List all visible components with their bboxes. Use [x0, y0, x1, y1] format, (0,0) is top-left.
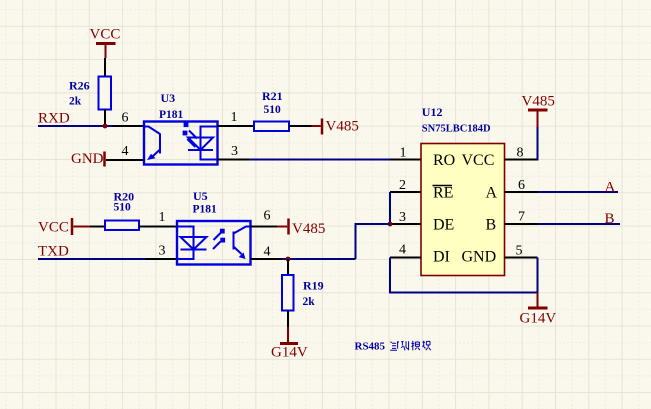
junction RXD/R26 — [103, 124, 108, 129]
svg-text:A: A — [486, 185, 498, 202]
svg-text:U12: U12 — [422, 105, 443, 119]
svg-text:1: 1 — [400, 146, 407, 161]
svg-text:G14V: G14V — [271, 345, 308, 361]
pin 2 of U12 — [390, 178, 421, 193]
svg-text:1: 1 — [231, 110, 238, 125]
svg-text:U5: U5 — [193, 189, 208, 203]
svg-text:V485: V485 — [326, 119, 359, 135]
pin 3 of U5 — [146, 244, 178, 260]
svg-text:510: 510 — [264, 104, 282, 116]
power VCC (top) — [90, 27, 121, 58]
opto-coupler U3 designator — [159, 91, 184, 121]
wire pin5 down to ground — [537, 258, 539, 293]
svg-text:3: 3 — [399, 210, 406, 225]
wire net A — [538, 191, 619, 193]
svg-text:1: 1 — [159, 210, 166, 225]
svg-text:G14V: G14V — [520, 311, 557, 327]
svg-text:4: 4 — [399, 243, 406, 258]
svg-text:R21: R21 — [262, 89, 283, 103]
IC U12 designator — [422, 105, 491, 135]
svg-text:R26: R26 — [69, 79, 90, 93]
pin 6 of U12 — [505, 178, 538, 193]
power GND (left) — [71, 151, 105, 167]
wire RXD — [38, 125, 113, 127]
power G14V (right) — [520, 293, 557, 327]
wire GND to U3 — [106, 159, 113, 161]
power V485 (right of R21) — [312, 119, 359, 135]
svg-text:6: 6 — [264, 209, 271, 224]
opto-coupler U5 body — [177, 221, 251, 265]
svg-text:2k: 2k — [69, 96, 82, 108]
resistor R20 — [90, 190, 139, 231]
resistor R19 — [282, 259, 324, 327]
svg-text:6: 6 — [518, 178, 525, 193]
svg-text:SN75LBC184D: SN75LBC184D — [422, 124, 491, 135]
wire pin8 to V485 — [537, 127, 539, 161]
svg-text:6: 6 — [122, 111, 129, 126]
power V485 (top right) — [522, 94, 555, 128]
pin 3 of U3 — [218, 144, 250, 160]
opto-coupler U5 designator — [193, 189, 218, 216]
svg-text:DE: DE — [433, 217, 454, 234]
svg-text:GND: GND — [71, 151, 104, 167]
pin 4 of U12 — [390, 243, 421, 258]
svg-text:B: B — [605, 211, 615, 227]
svg-text:510: 510 — [114, 202, 132, 214]
power G14V (bottom left) — [271, 327, 308, 361]
svg-text:R19: R19 — [303, 279, 324, 293]
resistor R21 — [254, 89, 289, 131]
IC U12 body — [421, 144, 505, 276]
svg-text:RO: RO — [433, 152, 455, 169]
svg-text:4: 4 — [122, 144, 129, 159]
wire net B — [538, 223, 621, 225]
svg-text:5: 5 — [516, 244, 523, 259]
svg-text:2k: 2k — [303, 296, 316, 308]
svg-text:VCC: VCC — [462, 152, 495, 169]
svg-text:TXD: TXD — [38, 244, 69, 260]
svg-text:3: 3 — [159, 244, 166, 259]
svg-text:P181: P181 — [159, 109, 184, 121]
svg-text:A: A — [605, 180, 616, 196]
wire TXD — [38, 258, 146, 260]
svg-text:DI: DI — [433, 249, 450, 266]
svg-text:GND: GND — [462, 249, 497, 266]
junction R19 top — [286, 257, 291, 262]
wire U5 pin4 to DE riser — [282, 258, 356, 260]
svg-text:RE: RE — [433, 185, 453, 202]
svg-text:V485: V485 — [292, 221, 325, 237]
svg-text:2: 2 — [399, 178, 406, 193]
pin 5 of U12 — [505, 244, 538, 259]
pin 8 of U12 — [505, 146, 538, 161]
wire R21 to V485 — [289, 125, 312, 127]
svg-text:RXD: RXD — [38, 111, 70, 127]
pin 4 of U5 — [251, 245, 283, 260]
svg-text:RS485: RS485 — [355, 341, 386, 353]
svg-text:VCC: VCC — [90, 27, 121, 43]
pin 6 of U5 — [251, 209, 278, 227]
pin 4 of U3 — [113, 144, 145, 160]
junction RE/DE — [388, 222, 393, 227]
svg-text:V485: V485 — [522, 94, 555, 110]
opto-coupler U3 body — [144, 122, 218, 165]
pin 1 of U5 — [139, 210, 177, 227]
pin 1 of U3 — [218, 110, 255, 126]
pin 3 of U12 — [390, 210, 421, 225]
pin 7 of U12 — [505, 210, 538, 225]
power VCC (bottom left) — [38, 218, 90, 236]
svg-text:U3: U3 — [161, 91, 176, 105]
svg-text:7: 7 — [518, 210, 525, 225]
note RS485 module — [355, 341, 431, 353]
svg-text:VCC: VCC — [38, 220, 69, 236]
svg-text:3: 3 — [231, 144, 238, 159]
power V485 (bottom) — [277, 219, 325, 238]
svg-text:8: 8 — [517, 146, 524, 161]
svg-text:4: 4 — [264, 245, 271, 260]
wire RE to DE — [389, 192, 391, 224]
svg-text:B: B — [486, 217, 497, 234]
wire RO net (U3 pin3 to U12 pin1) — [249, 159, 390, 161]
resistor R26 — [69, 58, 111, 126]
wire DE net — [356, 224, 391, 259]
svg-text:P181: P181 — [193, 204, 218, 216]
pin 1 of U12 — [390, 146, 421, 161]
wire DI loop — [390, 258, 538, 293]
pin 6 of U3 — [113, 111, 145, 127]
